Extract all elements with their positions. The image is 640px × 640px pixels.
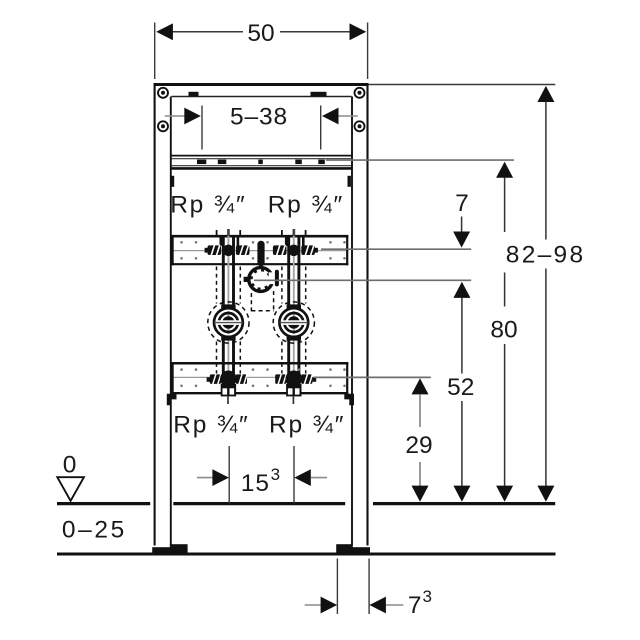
- svg-text:Rp ¾″: Rp ¾″: [170, 191, 246, 218]
- union fitting right: [273, 302, 314, 343]
- svg-text:7: 7: [455, 190, 469, 217]
- dimension 7 line and arrow: [453, 217, 470, 248]
- dimension 82-98 top arrow: [537, 86, 554, 240]
- pipe stub above crossbar right: [282, 229, 306, 236]
- dimension 50 arrowhead right: [350, 23, 367, 40]
- leader from pipe clamp: [254, 279, 471, 281]
- rail leader line to 80 dimension: [326, 159, 514, 161]
- dimension 50 extension line right: [367, 23, 369, 80]
- leader from bottom fitting: [314, 376, 431, 378]
- svg-text:52: 52: [447, 374, 474, 401]
- top fitting right (water connection): [273, 237, 318, 256]
- pipe clearance dashed left: [217, 267, 241, 374]
- dimension 7-3 label: [408, 587, 432, 619]
- dimension 80 bottom arrow: [496, 344, 513, 502]
- frame left column: [154, 84, 156, 546]
- svg-text:Rp ¾″: Rp ¾″: [173, 411, 249, 438]
- union fitting left: [208, 302, 249, 343]
- svg-text:3: 3: [271, 465, 280, 484]
- svg-text:3: 3: [423, 587, 432, 606]
- dimension 5-38 tick right: [320, 106, 322, 150]
- corner screw right lower: [355, 121, 365, 131]
- frame right column: [351, 97, 353, 546]
- dimension 15-3 tick right: [293, 446, 295, 503]
- corner screw top-left: [158, 88, 168, 98]
- leader from top fitting: [321, 248, 471, 250]
- right foot plate: [336, 544, 370, 554]
- dimension 52 bottom arrow: [453, 401, 470, 502]
- svg-text:29: 29: [405, 432, 432, 459]
- mounting rail: [172, 156, 352, 169]
- dimension 5-38 tick left: [201, 106, 203, 150]
- pipe clamp left lug: [244, 277, 249, 282]
- dimension 15-3 arrow left: [197, 469, 229, 486]
- dimension 52 top arrow: [453, 282, 470, 374]
- dimension 50 extension line left: [154, 23, 156, 80]
- water pipe left: [223, 236, 233, 384]
- svg-text:15: 15: [241, 470, 270, 497]
- corner screw top-right: [355, 88, 365, 98]
- dimension 15-3 label: [241, 465, 280, 497]
- pipe clamp gap: [269, 272, 275, 284]
- datum triangle: [57, 477, 84, 501]
- svg-text:80: 80: [490, 317, 517, 344]
- dimension 29 top arrow: [412, 378, 429, 427]
- pipe clearance dashed right: [282, 267, 306, 374]
- raw floor line: [57, 553, 556, 556]
- svg-text:Rp ¾″: Rp ¾″: [268, 191, 344, 218]
- frame hanger tab right: [311, 92, 327, 97]
- top line extension to 82-98 dimension: [369, 84, 556, 86]
- crossbar corner bracket bottom-left: [167, 394, 177, 406]
- left foot plate: [152, 544, 187, 554]
- dimension 7-3 tick right: [368, 559, 370, 615]
- column nub left: [171, 176, 174, 187]
- pipe clamp teeth: [251, 270, 270, 289]
- dimension 50 line right segment: [280, 31, 351, 33]
- bottom fitting left (elbow): [207, 371, 248, 405]
- bottom fitting right (elbow): [275, 371, 316, 405]
- dimension 7-3 arrow right: [369, 597, 403, 614]
- dimension 5-38 arrow left: [165, 108, 201, 125]
- top crossbar: [172, 235, 349, 265]
- svg-text:5–38: 5–38: [230, 103, 288, 130]
- finished floor line: [57, 502, 555, 505]
- pipe stub above crossbar left: [217, 229, 241, 236]
- pipe clamp circle: [249, 268, 273, 292]
- dimension 5-38 arrow right: [322, 108, 358, 125]
- dimension 82-98 bottom arrow: [537, 269, 554, 502]
- crossbar corner bracket bottom-right: [344, 394, 354, 406]
- clamp dashed outlet box: [251, 291, 273, 311]
- corner screw left lower: [158, 121, 168, 131]
- dimension 15-3 tick left: [228, 446, 230, 503]
- dimension 29 bottom arrow: [412, 462, 429, 502]
- bottom crossbar: [172, 362, 349, 394]
- clamp mounting bolt: [257, 241, 264, 266]
- dimension 80 top arrow: [496, 162, 513, 307]
- top fitting left (water connection): [205, 237, 250, 256]
- svg-text:0: 0: [63, 452, 77, 479]
- dimension 7-3 arrow left: [305, 597, 337, 614]
- svg-text:Rp ¾″: Rp ¾″: [269, 411, 345, 438]
- column nub right: [348, 176, 351, 187]
- svg-text:50: 50: [247, 20, 274, 47]
- svg-text:0–25: 0–25: [62, 517, 127, 544]
- frame top member: [154, 83, 369, 86]
- dimension 7-3 tick left: [336, 559, 338, 615]
- dimension 50 arrowhead left: [156, 23, 173, 40]
- frame hanger tab left: [189, 92, 199, 97]
- svg-text:82–98: 82–98: [506, 242, 586, 269]
- dimension 50 line left segment: [172, 31, 243, 33]
- water pipe right: [289, 236, 299, 384]
- dimension 15-3 arrow right: [294, 469, 327, 486]
- svg-text:7: 7: [408, 592, 422, 619]
- pipe clamp screw pin: [275, 270, 279, 287]
